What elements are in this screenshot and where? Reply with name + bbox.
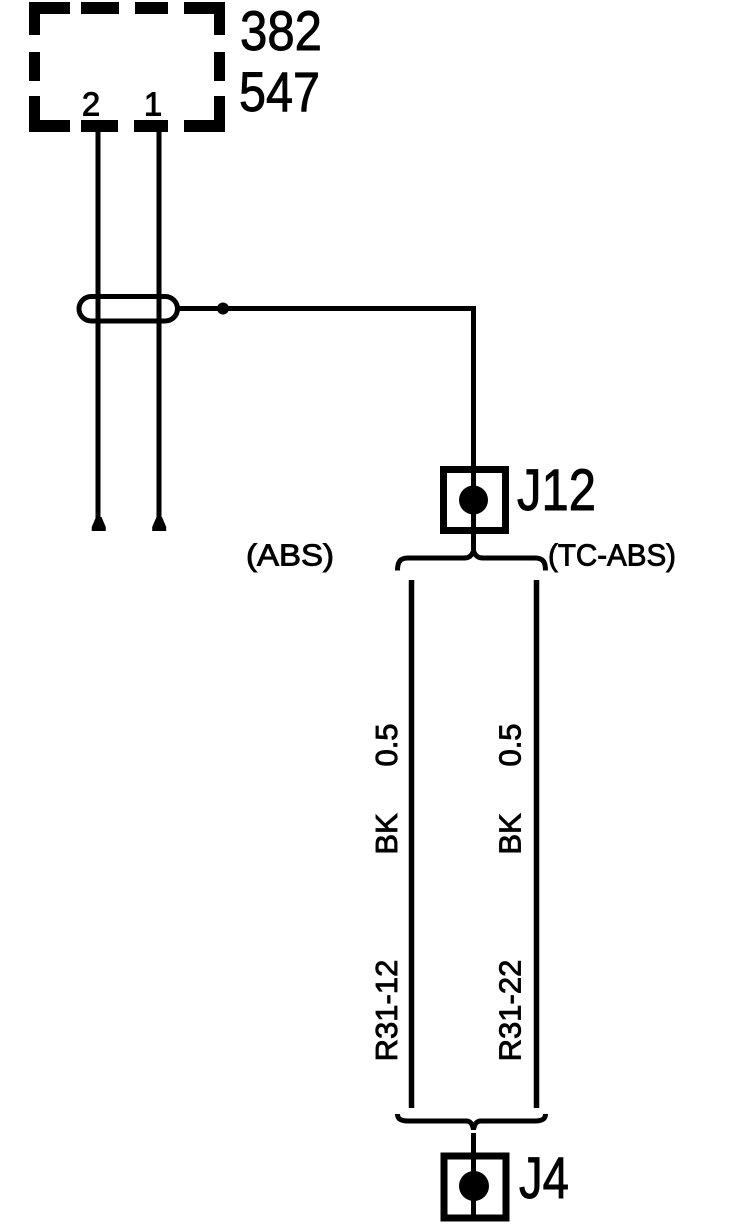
svg-text:J12: J12 xyxy=(517,458,596,523)
svg-text:BK: BK xyxy=(493,813,528,855)
svg-text:2: 2 xyxy=(82,86,100,123)
svg-text:382: 382 xyxy=(240,0,322,62)
svg-text:J4: J4 xyxy=(519,1146,569,1211)
svg-text:1: 1 xyxy=(144,86,162,123)
svg-text:R31-22: R31-22 xyxy=(493,960,528,1062)
svg-text:0.5: 0.5 xyxy=(493,723,528,766)
svg-text:BK: BK xyxy=(369,813,404,855)
svg-text:(ABS): (ABS) xyxy=(246,538,334,573)
svg-text:547: 547 xyxy=(239,60,320,123)
svg-text:R31-12: R31-12 xyxy=(369,960,404,1062)
svg-text:(TC-ABS): (TC-ABS) xyxy=(548,538,676,573)
svg-text:0.5: 0.5 xyxy=(369,723,404,766)
